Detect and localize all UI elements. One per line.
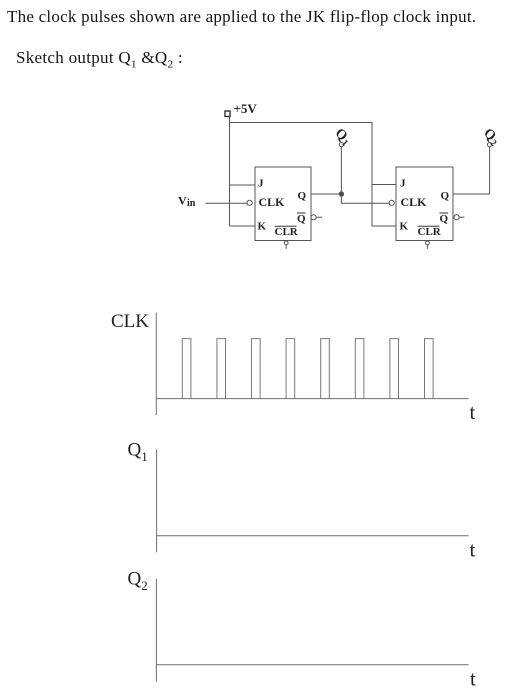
clock pulse 4	[286, 339, 295, 399]
clock pulse 5	[321, 339, 330, 399]
svg-text:Q2: Q2	[479, 126, 502, 149]
svg-text:t: t	[470, 400, 476, 424]
svg-text:CLR: CLR	[418, 226, 442, 238]
svg-text:Q: Q	[298, 190, 307, 202]
clock pulse 1	[182, 339, 191, 399]
wire Q1 riser	[340, 147, 342, 194]
svg-text:Q: Q	[297, 213, 306, 225]
wire Vin input	[206, 202, 248, 204]
wire U1 Qbar stub	[316, 216, 322, 218]
wire +5V vertical drop	[229, 117, 231, 227]
wire K1 branch	[230, 225, 256, 227]
clock pulse 6	[355, 339, 364, 399]
pin Qbar of U1	[297, 213, 306, 225]
Q2 baseline	[156, 664, 468, 666]
wire U2 Q output	[453, 193, 490, 195]
node Q1 terminal	[339, 142, 343, 146]
CLK baseline	[156, 398, 468, 400]
clock pulse 8	[425, 339, 434, 399]
flip-flop U2 Qbar bubble	[454, 215, 459, 220]
svg-text:Q1: Q1	[331, 126, 354, 149]
svg-text:Q: Q	[440, 213, 449, 225]
wire U1 Q to U2 CLK	[341, 194, 389, 203]
Q1 vertical axis	[156, 449, 158, 552]
wire Q2 riser	[489, 147, 491, 194]
svg-text:CLK: CLK	[259, 195, 286, 209]
svg-text:K: K	[400, 221, 409, 233]
clock pulse 2	[217, 339, 226, 399]
wire +5V top rail	[230, 123, 373, 227]
power +5V terminal	[225, 111, 230, 117]
Q2 vertical axis	[155, 579, 157, 682]
flip-flop U2 CLR bubble	[426, 241, 430, 245]
clock pulse 7	[390, 339, 399, 399]
svg-text:Q1: Q1	[128, 440, 148, 465]
wire U1 Q output	[311, 193, 341, 195]
svg-text:V: V	[178, 194, 187, 208]
svg-text:t: t	[470, 667, 476, 691]
junction node Q1	[339, 192, 343, 196]
flip-flop U1 Qbar bubble	[311, 215, 316, 220]
wire U2 Qbar stub	[459, 216, 464, 218]
node Q2 terminal	[488, 143, 492, 147]
pin Qbar of U2	[440, 213, 449, 225]
clock pulse 3	[252, 339, 261, 399]
svg-text:CLK: CLK	[401, 195, 428, 209]
svg-text:CLK: CLK	[111, 311, 149, 332]
svg-text:in: in	[187, 198, 196, 209]
svg-text:J: J	[258, 178, 264, 190]
pin CLR of U1	[275, 226, 299, 238]
svg-text:K: K	[258, 221, 267, 233]
svg-text:CLR: CLR	[275, 226, 299, 238]
flip-flop U2 clock bubble	[389, 200, 394, 205]
svg-text:+5V: +5V	[234, 101, 258, 116]
wire J2 branch	[372, 184, 396, 186]
wire J1 branch	[230, 184, 256, 186]
pin CLR of U2	[418, 226, 442, 238]
Q1 baseline	[157, 535, 469, 537]
wire U1 CLR stub	[285, 245, 287, 249]
svg-text:t: t	[470, 538, 476, 562]
svg-text:Q: Q	[441, 190, 450, 202]
wire U2 CLR stub	[426, 245, 428, 249]
svg-text:J: J	[400, 178, 406, 190]
svg-text:Q2: Q2	[128, 569, 148, 594]
flip-flop U2 body	[396, 167, 453, 241]
flip-flop U1 CLR bubble	[284, 241, 288, 245]
node Vin label	[178, 194, 196, 210]
flip-flop U1 body	[255, 167, 311, 241]
CLK vertical axis	[155, 313, 157, 416]
flip-flop U1 clock bubble	[247, 200, 252, 205]
wire K2 branch	[372, 225, 396, 227]
